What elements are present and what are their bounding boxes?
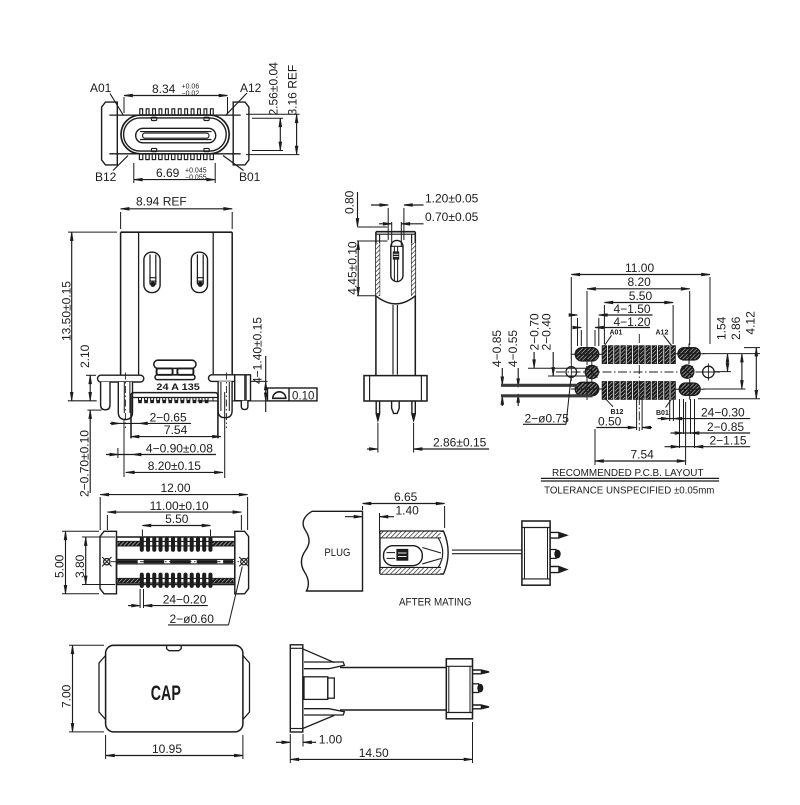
plug section: center peg <box>392 401 400 413</box>
bottom view: top contact row <box>140 537 143 552</box>
dimension 12.00 <box>99 497 101 530</box>
dimension 3.16 REF <box>246 113 300 115</box>
svg-text:B01: B01 <box>239 170 261 184</box>
dimension 2.86 +/-0.15 <box>377 423 379 453</box>
bottom view: center slot <box>117 558 235 560</box>
svg-text:3.80: 3.80 <box>73 554 87 578</box>
svg-text:8.34: 8.34 <box>152 82 176 96</box>
svg-text:14.50: 14.50 <box>359 746 389 760</box>
svg-text:2−ø0.60: 2−ø0.60 <box>170 612 215 626</box>
plug section: shell outline <box>376 231 415 233</box>
dimension 7.54 (pcb) <box>594 429 596 465</box>
front view: left mounting ear <box>102 102 118 165</box>
side view: contact comb <box>133 397 218 399</box>
svg-text:+0.045: +0.045 <box>185 168 207 175</box>
after mating: plug tongue inside <box>384 546 423 566</box>
pcb layout: A-row SMT pads <box>602 346 607 364</box>
svg-text:2−0.85: 2−0.85 <box>707 420 744 434</box>
svg-text:8.20: 8.20 <box>628 275 652 289</box>
svg-text:4.45±0.10: 4.45±0.10 <box>346 241 360 295</box>
svg-text:RECOMMENDED P.C.B. LAYOUT: RECOMMENDED P.C.B. LAYOUT <box>552 467 704 479</box>
pcb layout: B-row left oval pad <box>575 382 599 395</box>
cap: top notch <box>167 645 182 650</box>
svg-text:11.00±0.10: 11.00±0.10 <box>150 499 209 513</box>
cap side: end plate <box>290 645 303 732</box>
svg-text:2.10: 2.10 <box>78 344 92 368</box>
svg-text:5.00: 5.00 <box>53 554 67 578</box>
plug section: shell bottom seam arc <box>376 296 415 304</box>
dimension 11.00 <box>570 277 572 363</box>
front view: outer shell oval <box>121 115 229 154</box>
svg-text:AFTER MATING: AFTER MATING <box>399 597 472 609</box>
front view: bottom flange edge <box>109 153 240 155</box>
dimension 7.00 vertical <box>69 644 104 646</box>
svg-text:4−1.50: 4−1.50 <box>614 302 651 316</box>
dimension 24-0.30 <box>669 400 671 421</box>
front view: tongue <box>136 128 216 143</box>
front view: right mounting ear <box>233 102 249 165</box>
svg-text:2.56±0.04: 2.56±0.04 <box>267 62 281 116</box>
svg-text:13.50±0.15: 13.50±0.15 <box>59 281 73 341</box>
cap side: middle peg <box>473 684 479 693</box>
svg-text:4−0.85: 4−0.85 <box>490 330 504 367</box>
cap: right side tab <box>243 656 250 720</box>
pcb layout: through-hole centerline <box>556 371 722 373</box>
plug section: dimension 1.20 +/-0.05 <box>371 204 388 206</box>
side view: paddle stack top bar <box>154 360 196 368</box>
after mating: receptacle shell barrel <box>380 530 444 532</box>
after mating: funnel taper <box>422 548 441 554</box>
flatness tolerance frame 0.10 <box>268 388 318 401</box>
dimension 3.80 vertical <box>82 536 115 538</box>
bottom view: bottom solder rail <box>117 577 235 579</box>
dimension 8.94 REF <box>120 212 122 229</box>
dimension 5.50 (pitch span) <box>141 530 143 537</box>
svg-text:PLUG: PLUG <box>324 547 350 559</box>
bottom view: top solder rail <box>117 540 235 542</box>
svg-text:0.50: 0.50 <box>598 415 622 429</box>
svg-text:−0.02: −0.02 <box>182 91 200 98</box>
svg-text:24 A 135: 24 A 135 <box>156 382 200 393</box>
pcb layout: A-row left oval pad <box>575 348 599 361</box>
plug section: dimension 0.70 +/-0.05 <box>379 223 392 225</box>
dimension 11.00 +/-0.10 <box>106 515 108 530</box>
dimension 8.34 +0.06 -0.02 <box>123 97 125 113</box>
bottom view: bottom contact row <box>140 573 143 588</box>
plug section: contact detail <box>393 252 399 259</box>
side view: left board-lock wing <box>98 375 144 382</box>
after mating: top pin <box>550 532 567 538</box>
bottom view: centerline <box>111 561 240 563</box>
after mating: barrel front cap arc <box>444 531 449 574</box>
side view: leg centerlines <box>124 373 126 429</box>
dimension 8.20 <box>586 291 588 345</box>
side view: shell body outline <box>121 231 233 233</box>
pcb layout: left plain hole <box>566 367 577 378</box>
side view: left spring latch <box>144 252 160 292</box>
side view: right wing end block <box>235 375 251 401</box>
side view: left rear leg <box>101 382 110 410</box>
svg-text:2−0.70±0.10: 2−0.70±0.10 <box>78 430 92 497</box>
svg-text:5.50: 5.50 <box>165 512 189 526</box>
svg-text:7.54: 7.54 <box>631 447 655 461</box>
dimension 4.45 +/-0.10 <box>357 240 388 242</box>
svg-text:0.70±0.05: 0.70±0.05 <box>425 210 479 224</box>
svg-text:8.20±0.15: 8.20±0.15 <box>148 459 202 473</box>
svg-text:0.80: 0.80 <box>343 190 357 214</box>
cap side: top pin <box>473 670 490 674</box>
dimension 14.50 <box>289 734 291 763</box>
dimension 4-1.40 +/-0.15 <box>251 380 268 382</box>
svg-text:11.00: 11.00 <box>625 261 654 275</box>
front view: tongue contact edge lines <box>140 131 212 133</box>
svg-text:8.94 REF: 8.94 REF <box>136 195 187 209</box>
svg-text:0.10: 0.10 <box>292 390 314 402</box>
dimension 10.95 <box>105 735 107 759</box>
svg-text:4.12: 4.12 <box>744 311 758 335</box>
bottom view: body outline <box>117 537 235 585</box>
13.50/2.10 bottom extension line <box>68 400 97 402</box>
svg-text:+0.06: +0.06 <box>182 84 200 91</box>
dimension 6.69 +0.045 -0.055 <box>133 163 135 183</box>
svg-text:4−1.20: 4−1.20 <box>614 315 651 329</box>
dimension 7.54 (leg span) <box>131 436 222 438</box>
front view: shell detent bumps <box>151 117 156 120</box>
after mating: receptacle base block <box>522 521 550 585</box>
svg-text:4−1.40±0.15: 4−1.40±0.15 <box>251 317 265 384</box>
dimension 13.50 +/-0.15 <box>68 231 117 233</box>
dimension 1.54 vertical <box>703 353 760 355</box>
pcb layout: left hatched hole <box>585 365 598 378</box>
side view: shell inner walls <box>138 232 140 375</box>
svg-text:7.00: 7.00 <box>60 684 74 708</box>
plug section: shell wall hatching <box>376 243 380 296</box>
cap side: bottom pin <box>473 705 490 709</box>
side view: right front leg <box>218 381 232 417</box>
svg-text:6.65: 6.65 <box>394 490 418 504</box>
plug section: center rod <box>392 305 394 375</box>
svg-text:2.86: 2.86 <box>729 316 743 340</box>
dimension 5.00 vertical <box>62 530 99 532</box>
dimension 1.40 <box>345 516 363 518</box>
after mating: middle peg <box>550 550 556 559</box>
svg-text:CAP: CAP <box>151 682 181 705</box>
svg-text:7.54: 7.54 <box>164 423 188 437</box>
cap side: bottom wedge <box>304 709 344 715</box>
dimension 4.12 vertical <box>744 347 760 349</box>
pcb layout: B-row right oval pad <box>679 383 700 395</box>
dimension 2.10 <box>86 374 96 376</box>
side view: insulator housing <box>131 393 218 439</box>
leader lines to B-row oval pad <box>501 384 577 387</box>
side view: right spring latch <box>191 252 207 292</box>
after mating: contact block detail <box>397 549 408 560</box>
cap: body outline <box>106 645 243 732</box>
after mating: plug body with break line <box>301 511 362 591</box>
front view: top flange edge <box>109 114 240 116</box>
bottom view: left end block <box>100 531 117 594</box>
svg-text:−0.055: −0.055 <box>185 175 207 182</box>
dimension 4-1.50 <box>577 318 579 346</box>
dimension 4-1.20 <box>580 330 582 346</box>
svg-text:24−0.30: 24−0.30 <box>701 406 745 420</box>
plug section: base block <box>364 376 427 401</box>
cap side: middle latch tab <box>304 677 328 700</box>
side view: right board-lock wing <box>209 375 238 382</box>
svg-text:1.20±0.05: 1.20±0.05 <box>425 192 479 206</box>
side view: left front leg <box>118 382 132 420</box>
svg-text:3.16 REF: 3.16 REF <box>285 65 299 116</box>
svg-text:2−1.15: 2−1.15 <box>710 434 747 448</box>
svg-text:2.86±0.15: 2.86±0.15 <box>433 436 487 450</box>
dimension 5.50 <box>603 305 605 344</box>
svg-text:1.00: 1.00 <box>319 733 343 747</box>
front view: tongue inner capsule <box>143 133 210 138</box>
svg-text:A01: A01 <box>610 329 623 336</box>
pcb layout: right plain hole with centerlines <box>703 366 715 378</box>
bottom view: right end block <box>235 531 249 594</box>
cap: left side tab <box>99 656 106 720</box>
svg-text:B01: B01 <box>656 410 669 417</box>
side view: paddle stack middle cells <box>157 368 173 374</box>
svg-text:B12: B12 <box>95 170 117 184</box>
svg-text:1.40: 1.40 <box>396 504 420 518</box>
after mating: center rod <box>452 549 522 551</box>
dimension 2-1.15 <box>679 399 681 448</box>
pcb layout: vertical centerline <box>638 334 640 431</box>
pcb layout: A-row right oval pad <box>678 348 700 360</box>
side view: paddle stack bottom bar <box>155 375 195 380</box>
dimension 24-0.20 <box>139 589 141 608</box>
svg-text:A12: A12 <box>656 329 669 336</box>
svg-text:4−0.90±0.08: 4−0.90±0.08 <box>146 441 213 455</box>
dimension 0.50 pitch <box>636 399 638 430</box>
pcb layout: B-row SMT pads <box>602 382 607 400</box>
dimension 1.00 <box>302 734 304 747</box>
cap side: rear block <box>446 659 472 719</box>
svg-text:1.54: 1.54 <box>715 316 729 340</box>
plug section: right solder pin <box>412 401 415 420</box>
plug section: left solder pin <box>376 401 379 420</box>
svg-text:10.95: 10.95 <box>152 742 182 756</box>
svg-text:4−0.55: 4−0.55 <box>506 330 520 367</box>
svg-text:2−0.40: 2−0.40 <box>539 313 553 350</box>
pcb layout: right hatched hole <box>681 365 694 378</box>
bottom view: right screw hole <box>241 559 247 565</box>
cap side: barrel <box>340 667 446 669</box>
side view: right small leg <box>241 401 248 410</box>
plug section: tongue cavity <box>391 240 403 281</box>
bottom view: left screw hole <box>104 559 110 565</box>
svg-text:A01: A01 <box>90 81 112 95</box>
front view: bottom ground teeth <box>139 154 142 160</box>
seating plane datum line <box>198 400 318 402</box>
svg-text:6.69: 6.69 <box>156 166 180 180</box>
front view: top ground teeth <box>140 109 143 115</box>
dimension 2.56 +/-0.04 <box>252 117 283 119</box>
svg-text:A12: A12 <box>240 81 262 95</box>
dimension 2-0.85 <box>683 399 685 434</box>
svg-text:TOLERANCE UNSPECIFIED ±0.05m: TOLERANCE UNSPECIFIED ±0.05mm <box>544 485 715 497</box>
front view: inner shell oval <box>124 118 227 151</box>
svg-text:12.00: 12.00 <box>161 481 191 495</box>
cap side: top wedge <box>303 649 335 663</box>
dimension 8.20 +/-0.15 <box>117 448 119 458</box>
dimension 6.65 <box>362 506 364 510</box>
after mating: bottom pin <box>550 567 567 573</box>
dimension 2.86 vertical <box>703 388 746 390</box>
dimension 4-0.90 +/-0.08 <box>106 454 216 456</box>
svg-text:24−0.20: 24−0.20 <box>163 593 207 607</box>
svg-text:2−ø0.75: 2−ø0.75 <box>525 412 570 426</box>
